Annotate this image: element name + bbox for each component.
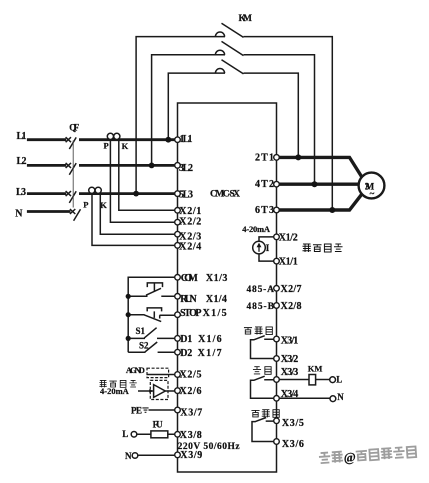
label programmable 1 chinese [244, 327, 272, 335]
fuse FU [151, 431, 168, 438]
svg-text:CMC-SX: CMC-SX [210, 189, 240, 199]
svg-text:X2/4: X2/4 [179, 241, 201, 252]
svg-text:D1: D1 [180, 334, 192, 345]
analog input arrowhead [149, 389, 153, 393]
switch S1 [128, 328, 175, 339]
svg-text:X2/2: X2/2 [179, 216, 201, 227]
wire L1 after breaker thick [79, 138, 175, 141]
svg-text:~: ~ [370, 189, 375, 199]
contactor KM contact row2 arc [215, 50, 224, 55]
wire L3 tap up to KM row1 [136, 37, 225, 194]
svg-text:L: L [336, 374, 342, 384]
svg-text:L1: L1 [17, 131, 27, 142]
wire L1 incoming thick [27, 138, 66, 141]
junction dot 4T2 [312, 181, 318, 187]
svg-text:4-20mA: 4-20mA [100, 386, 130, 396]
svg-text:I: I [266, 243, 270, 253]
label analog input chinese [99, 380, 136, 387]
svg-text:X2/5: X2/5 [180, 369, 202, 380]
wire L3 after breaker thick [79, 192, 175, 195]
terminal X2/1 [175, 208, 181, 214]
junction dot 2T1 [295, 154, 301, 160]
junction dot bus D1 [126, 336, 131, 341]
terminal COM X1/3 [175, 275, 181, 281]
svg-text:N: N [125, 451, 132, 461]
svg-text:4-20mA: 4-20mA [242, 224, 271, 234]
wire X3/4 to N [279, 397, 330, 399]
motor 3M circle [359, 173, 385, 199]
svg-text:KM: KM [308, 363, 323, 373]
bypass switch X3/3-X3/4 loop [251, 376, 274, 398]
label programmable 2 chinese [251, 410, 279, 418]
svg-text:6T3: 6T3 [255, 205, 274, 216]
svg-text:AGND: AGND [126, 365, 145, 375]
wire L2 incoming thick [27, 164, 66, 167]
breaker QF pole 1 [66, 137, 77, 149]
svg-text:K: K [100, 200, 107, 210]
wire 2T1 to motor thick [277, 157, 362, 176]
contactor coil KM [309, 375, 316, 385]
svg-text:L: L [122, 429, 128, 439]
wire N incoming thick [27, 210, 71, 213]
svg-text:4T2: 4T2 [255, 179, 274, 190]
wire AGND to X2/5 [147, 374, 175, 376]
svg-text:X3/2: X3/2 [281, 354, 299, 365]
svg-text:3L2: 3L2 [179, 163, 193, 174]
terminal X3/9 [175, 452, 181, 458]
contactor KM contact row1 blade [222, 23, 244, 37]
terminal X2/4 [175, 243, 181, 249]
terminal 3L2 [175, 163, 181, 169]
current source I arrow [258, 245, 260, 252]
programmable switch X3/5-X3/6 loop [252, 418, 274, 442]
wire CT L1 P to X2/2 [110, 140, 174, 223]
svg-text:P: P [104, 140, 109, 150]
svg-text:X3/3: X3/3 [281, 367, 299, 378]
wire L2 tap up to KM row2 [152, 55, 225, 166]
contactor KM contact row3 blade [222, 60, 244, 74]
svg-text:2T1: 2T1 [255, 152, 274, 163]
CT transformer on L1 circle P [107, 133, 113, 139]
wire N to X3/9 [138, 454, 175, 456]
wire L1 tap up to KM row3 [168, 73, 225, 140]
svg-text:X3/5: X3/5 [282, 418, 304, 429]
svg-text:X3/4: X3/4 [281, 389, 299, 400]
svg-text:QF: QF [69, 122, 80, 132]
terminal 4T2 [274, 181, 280, 187]
svg-text:K: K [122, 141, 129, 151]
svg-text:5L3: 5L3 [179, 190, 193, 201]
svg-text:PE: PE [131, 406, 142, 416]
svg-text:X2/6: X2/6 [180, 386, 202, 397]
svg-text:X3/1: X3/1 [281, 335, 299, 346]
terminal X3/2 [274, 356, 280, 362]
junction dot 6T3 [329, 207, 335, 213]
svg-text:N: N [337, 392, 344, 402]
svg-text:X1/3: X1/3 [206, 273, 228, 284]
terminal L circle right [330, 377, 336, 383]
svg-text:X3/9: X3/9 [180, 450, 202, 461]
CT transformer on L1 circle K [114, 133, 120, 139]
svg-text:P: P [83, 200, 88, 210]
wire CT L3 P to X2/4 [92, 194, 175, 246]
wire L to fuse to X3/8 [137, 433, 175, 435]
CT transformer on L3 circle K [95, 187, 101, 193]
terminal X2/8 [274, 303, 280, 309]
ground PE symbol [142, 408, 148, 412]
current source I circle [253, 241, 266, 254]
wire KM row3 to 2T1 drop [244, 73, 299, 157]
terminal X3/4 [274, 396, 280, 402]
wire L2 after breaker thick [79, 164, 175, 167]
svg-text:X1/6: X1/6 [198, 334, 222, 345]
junction dot L3 tap [133, 191, 139, 197]
svg-text:FU: FU [153, 420, 164, 430]
current source arrowhead [257, 243, 262, 248]
svg-text:S2: S2 [139, 341, 149, 351]
switch S2 [128, 342, 175, 352]
svg-text:N: N [15, 209, 23, 220]
contactor KM contact row3 arc [215, 68, 224, 73]
svg-text:KM: KM [239, 14, 253, 24]
svg-text:X1/1: X1/1 [279, 257, 298, 268]
terminal X3/6 [274, 439, 280, 445]
terminal X2/5 [175, 372, 181, 378]
svg-text:L3: L3 [16, 187, 26, 198]
svg-text:@: @ [343, 449, 356, 465]
terminal X3/5 [274, 418, 280, 424]
junction dot bus RUN [126, 294, 131, 299]
CT transformer on L3 circle P [89, 187, 95, 193]
svg-text:X1/4: X1/4 [206, 294, 227, 305]
pushbutton RUN contacts [146, 283, 163, 295]
svg-text:RUN: RUN [180, 294, 197, 305]
shield dashed box amplifier [150, 380, 168, 399]
junction dot L2 tap [149, 163, 155, 169]
svg-text:X1/7: X1/7 [198, 348, 222, 359]
analog output loop X1/2 to X1/1 [259, 237, 274, 261]
wire L3 incoming thick [27, 192, 66, 195]
wire KM row1 to 6T3 drop [244, 37, 333, 210]
terminal X3/3 [274, 377, 280, 383]
programmable switch X3/1-X3/2 loop [251, 336, 274, 359]
terminal X3/1 [274, 336, 280, 342]
junction dot bus STOP [126, 312, 131, 317]
wire X3/3 to KM coil to L [279, 379, 329, 381]
wire 6T3 to motor thick [277, 194, 362, 210]
contactor KM contact row2 blade [222, 41, 244, 55]
svg-text:X1/5: X1/5 [203, 308, 227, 319]
wire CT L1 K to X2/1 [119, 140, 175, 211]
terminal STOP X1/5 [175, 312, 181, 318]
svg-text:X3/6: X3/6 [282, 439, 304, 450]
terminal X2/7 [274, 286, 280, 292]
shield dashed box AGND [147, 368, 169, 377]
pushbutton STOP wires [128, 314, 175, 317]
op-amp analog input triangle [154, 385, 166, 398]
svg-text:X2/8: X2/8 [281, 301, 302, 312]
terminal D1 X1/6 [175, 336, 181, 342]
wire PE to X3/7 [149, 409, 175, 411]
terminal 6T3 [274, 207, 280, 213]
svg-text:COM: COM [181, 273, 199, 284]
svg-text:D2: D2 [180, 348, 192, 359]
terminal 2T1 [274, 155, 280, 161]
svg-text:X3/7: X3/7 [180, 407, 202, 418]
pushbutton STOP contacts [144, 308, 161, 322]
breaker QF linkage [72, 141, 74, 208]
contactor KM contact row1 arc [215, 32, 224, 37]
terminal X1/1 [274, 258, 280, 264]
main box CMC-SX outline [178, 103, 277, 472]
breaker QF pole 2 [66, 163, 77, 175]
wire COM bus [128, 277, 175, 352]
svg-text:485-A: 485-A [247, 285, 275, 295]
terminal X3/8 [175, 432, 181, 438]
svg-text:X3/8: X3/8 [180, 430, 202, 441]
svg-text:L2: L2 [17, 156, 27, 167]
junction dot L1 tap [165, 137, 171, 143]
svg-text:STOP: STOP [180, 308, 202, 319]
svg-text:S1: S1 [136, 326, 146, 336]
svg-text:1L1: 1L1 [180, 134, 193, 145]
svg-text:X1/2: X1/2 [279, 232, 298, 243]
pushbutton RUN wires [128, 295, 175, 297]
terminal 1L1 [175, 137, 181, 143]
watermark toutiao [319, 446, 417, 463]
breaker QF pole N [70, 209, 81, 221]
breaker QF pole 3 [66, 191, 77, 203]
wire CT L3 K to X2/3 [100, 194, 175, 235]
wire KM row2 to 4T2 drop [244, 55, 315, 184]
label analog output chinese [302, 244, 342, 252]
terminal RUN X1/4 [175, 294, 181, 300]
wire 4T2 to motor thick [277, 182, 359, 185]
terminal X1/2 [274, 234, 280, 240]
svg-text:X2/7: X2/7 [281, 284, 302, 295]
wire analog input to X2/6 [138, 390, 175, 392]
svg-text:485-B: 485-B [247, 302, 275, 312]
terminal N circle right [330, 396, 336, 402]
terminal N circle [132, 453, 138, 459]
terminal X2/3 [175, 231, 181, 237]
terminal X3/7 [175, 407, 181, 413]
terminal 5L3 [175, 191, 181, 197]
label bypass chinese [253, 367, 271, 375]
terminal X2/6 [175, 388, 181, 394]
terminal L circle [131, 432, 137, 438]
terminal X2/2 [175, 219, 181, 225]
terminal D2 X1/7 [175, 349, 181, 355]
